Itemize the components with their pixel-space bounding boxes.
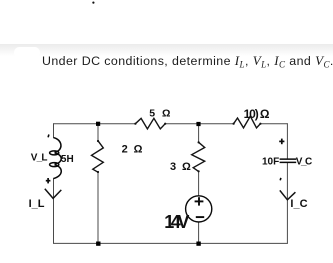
svg-text:I_L: I_L bbox=[29, 198, 45, 210]
wire right branch below capacitor bbox=[286, 163, 288, 244]
terminal dot 5ohm right bbox=[164, 123, 166, 125]
wire left below inductor bbox=[53, 179, 55, 244]
resistor 3 ohm bbox=[192, 142, 205, 171]
polarity plus for V_C bbox=[279, 139, 284, 145]
svg-text:V_C: V_C bbox=[296, 157, 312, 168]
terminal dot 10ohm left bbox=[233, 123, 235, 125]
wire below source bbox=[198, 222, 200, 244]
resistor 2 ohm bbox=[92, 141, 104, 172]
resistor 5 ohm bbox=[135, 118, 165, 129]
wire 3ohm branch top bbox=[198, 124, 200, 143]
terminal dot 3ohm bottom bbox=[198, 170, 200, 172]
svg-text:I_C: I_C bbox=[290, 198, 307, 210]
svg-text:5H: 5H bbox=[61, 154, 74, 165]
resistor 10 ohm bbox=[234, 116, 261, 128]
svg-text:V_L: V_L bbox=[31, 153, 48, 164]
voltage source 14V circle bbox=[186, 196, 212, 222]
junction node top-left bbox=[96, 122, 100, 126]
wire top-right segment bbox=[260, 123, 287, 125]
wire right branch above capacitor bbox=[286, 123, 288, 159]
wire top-middle segment bbox=[165, 123, 233, 125]
junction node bottom-middle bbox=[196, 242, 200, 246]
wire top-left segment bbox=[54, 123, 136, 125]
svg-text:5: 5 bbox=[149, 108, 155, 120]
terminal dot 2ohm bottom bbox=[97, 171, 99, 173]
svg-text:Ω: Ω bbox=[182, 161, 191, 173]
svg-text:14V: 14V bbox=[164, 212, 189, 232]
svg-text:Ω: Ω bbox=[134, 144, 143, 156]
inductor 5H coil bbox=[50, 138, 62, 179]
voltage source plus sign bbox=[195, 197, 204, 205]
current arrow I_C bbox=[280, 190, 296, 199]
terminal dot 2ohm top bbox=[97, 140, 99, 142]
current arrow I_L bbox=[45, 189, 62, 199]
terminal dot 3ohm top bbox=[198, 141, 200, 143]
terminal dot 10ohm right bbox=[259, 123, 261, 125]
svg-text:2: 2 bbox=[122, 144, 128, 156]
voltage source minus sign bbox=[196, 216, 204, 218]
svg-text:3: 3 bbox=[170, 161, 176, 173]
svg-text:10F: 10F bbox=[262, 157, 279, 168]
wire 2ohm branch bottom bbox=[97, 172, 99, 243]
polarity plus for V_L bbox=[46, 178, 51, 183]
polarity minus tick above inductor bbox=[47, 135, 50, 138]
wire left stub above inductor bbox=[53, 123, 55, 138]
wire 2ohm branch top bbox=[97, 124, 99, 141]
junction node top-middle bbox=[196, 122, 200, 126]
svg-text:10) Ω: 10) Ω bbox=[244, 107, 270, 121]
wire bottom rail bbox=[53, 242, 288, 244]
terminal dot 5ohm left bbox=[134, 123, 136, 125]
wire between 3ohm and source bbox=[198, 171, 200, 196]
junction node bottom-left bbox=[96, 242, 100, 246]
svg-text:Ω: Ω bbox=[162, 108, 170, 120]
capacitor 10F plates bbox=[280, 159, 297, 162]
polarity minus tick below capacitor bbox=[279, 178, 282, 180]
